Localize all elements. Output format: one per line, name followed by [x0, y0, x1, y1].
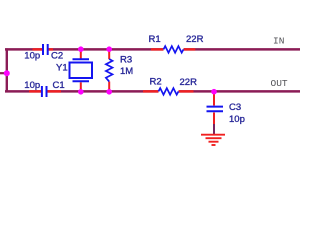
svg-text:Y1: Y1 — [56, 63, 68, 74]
svg-text:C2: C2 — [51, 51, 63, 62]
svg-text:22R: 22R — [180, 77, 198, 88]
svg-text:R3: R3 — [120, 55, 132, 66]
svg-text:C1: C1 — [53, 80, 65, 91]
svg-text:10p: 10p — [24, 51, 40, 62]
svg-text:R2: R2 — [150, 77, 162, 88]
svg-text:R1: R1 — [149, 34, 161, 45]
svg-text:22R: 22R — [186, 34, 204, 45]
svg-text:OUT: OUT — [271, 78, 288, 89]
svg-text:IN: IN — [273, 36, 284, 47]
svg-text:C3: C3 — [229, 102, 241, 113]
svg-text:10p: 10p — [24, 80, 40, 91]
svg-text:10p: 10p — [229, 114, 245, 125]
svg-text:1M: 1M — [120, 66, 133, 77]
